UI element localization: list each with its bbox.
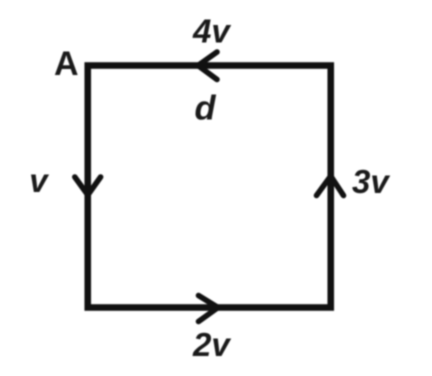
svg-text:4v: 4v <box>192 12 231 49</box>
square loop wire <box>88 66 331 308</box>
svg-text:A: A <box>54 45 79 83</box>
svg-text:d: d <box>195 90 217 128</box>
arrow top (left-pointing) <box>198 52 217 80</box>
arrow bottom (right-pointing) <box>199 296 219 322</box>
svg-text:3v: 3v <box>352 163 390 200</box>
arrow left (down-pointing) <box>75 177 101 195</box>
svg-text:2v: 2v <box>192 326 231 363</box>
arrow right (up-pointing) <box>317 176 344 196</box>
svg-text:v: v <box>29 162 49 199</box>
